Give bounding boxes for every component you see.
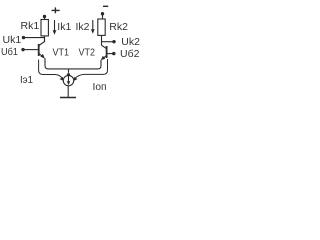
current arrow Ik2 bbox=[91, 20, 95, 34]
current arrow Ik1 bbox=[53, 20, 57, 35]
wire bbox=[44, 36, 46, 42]
svg-text:Rk2: Rk2 bbox=[109, 21, 128, 33]
svg-text:Uб2: Uб2 bbox=[120, 48, 140, 60]
wire bbox=[44, 17, 46, 20]
resistor Rk2 bbox=[98, 19, 105, 35]
wire emitters bus bbox=[45, 58, 101, 69]
transistor VT1 bbox=[39, 38, 45, 59]
current arrow Ie1 bbox=[39, 60, 64, 82]
current arrow Ie2 bbox=[73, 59, 107, 81]
svg-text:Rk1: Rk1 bbox=[21, 20, 40, 32]
wire bbox=[67, 86, 69, 98]
wire to current source bbox=[68, 69, 70, 73]
svg-text:Uk1: Uk1 bbox=[3, 34, 22, 46]
svg-text:VT2: VT2 bbox=[79, 47, 96, 59]
svg-text:Uб1: Uб1 bbox=[1, 46, 18, 58]
node Uk2 bbox=[112, 40, 115, 43]
transistor VT2 bbox=[101, 45, 107, 60]
svg-text:Uk2: Uk2 bbox=[121, 36, 140, 48]
svg-text:Ik2: Ik2 bbox=[76, 21, 90, 33]
resistor Rk1 bbox=[41, 20, 48, 36]
wire base VT2 bbox=[107, 53, 113, 55]
wire base VT1 bbox=[24, 49, 38, 51]
node emitters junction bbox=[67, 73, 70, 76]
node Ub1 bbox=[21, 48, 24, 51]
node Ub2 bbox=[112, 52, 115, 55]
node Uk1 bbox=[22, 36, 25, 39]
current source Ion bbox=[63, 75, 73, 85]
svg-text:VT1: VT1 bbox=[53, 47, 70, 59]
plus supply label bbox=[52, 7, 60, 13]
minus supply label bbox=[103, 5, 108, 7]
svg-text:Iэ1: Iэ1 bbox=[20, 74, 33, 86]
svg-text:Ik1: Ik1 bbox=[57, 21, 71, 33]
wire bbox=[101, 35, 103, 45]
node top-left terminal bbox=[43, 15, 46, 18]
node top-right terminal bbox=[101, 12, 104, 15]
wire bbox=[102, 14, 104, 19]
wire bbox=[25, 37, 45, 39]
ground bar bbox=[60, 97, 76, 99]
wire collector Uk2 bbox=[102, 41, 114, 43]
svg-text:Iоп: Iоп bbox=[93, 81, 107, 93]
